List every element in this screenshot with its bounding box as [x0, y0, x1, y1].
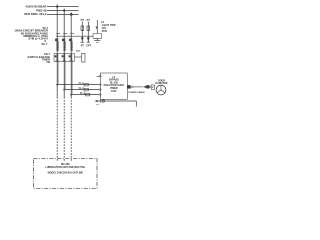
- svg-text:FL-2: FL-2: [79, 88, 85, 90]
- svg-text:FL-1: FL-1: [79, 83, 85, 85]
- svg-text:SU-7: SU-7: [41, 42, 48, 46]
- svg-text:PCB: PCB: [102, 30, 107, 33]
- svg-text:DOOR: DOOR: [158, 80, 165, 82]
- svg-text:51G: 51G: [76, 50, 80, 52]
- svg-text:LUBRICATION UNIT AND MCC PNL: LUBRICATION UNIT AND MCC PNL: [45, 166, 85, 169]
- svg-text:MODEL D MC200-841 OUTLINE: MODEL D MC200-841 OUTLINE: [48, 171, 84, 174]
- svg-text:PT: PT: [87, 18, 91, 22]
- svg-text:FL-3: FL-3: [80, 93, 86, 95]
- svg-text:115V: 115V: [111, 90, 117, 93]
- svg-text:CPT: CPT: [86, 44, 91, 47]
- svg-text:-7/9: -7/9: [46, 60, 51, 64]
- svg-text:PT: PT: [81, 18, 85, 22]
- svg-text:PER DWG. 031-2: PER DWG. 031-2: [24, 12, 47, 16]
- svg-text:RADIATOR: RADIATOR: [156, 82, 168, 85]
- svg-text:POWER CABLE: POWER CABLE: [128, 91, 145, 94]
- svg-text:PT: PT: [81, 44, 85, 47]
